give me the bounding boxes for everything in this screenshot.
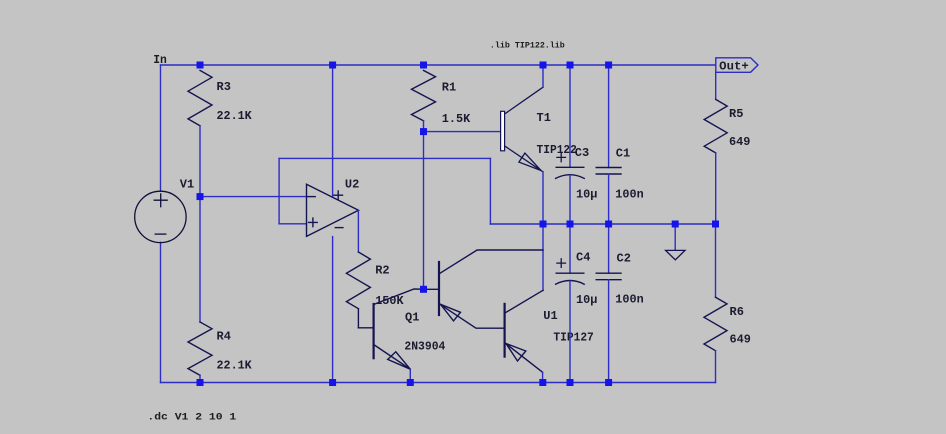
svg-text:T1: T1 xyxy=(537,111,551,125)
wire R4 bottom lead xyxy=(199,375,201,382)
wire R3 bottom lead to V1 node xyxy=(199,126,201,197)
wire Q1 emitter to bottom rail xyxy=(409,369,411,382)
resistor R2 xyxy=(346,252,370,309)
svg-text:22.1K: 22.1K xyxy=(217,358,253,372)
junction top rail / C1 xyxy=(605,62,612,69)
wire C3 top xyxy=(569,65,571,167)
wire C3 bottom xyxy=(569,175,571,224)
wire op-amp V+ supply from top rail xyxy=(332,65,334,197)
svg-text:C1: C1 xyxy=(616,147,630,161)
junction top rail / U2 supply xyxy=(329,62,336,69)
wire bottom rail xyxy=(161,382,716,384)
svg-text:Q1: Q1 xyxy=(405,310,419,324)
capacitor C3 (polarized) xyxy=(556,153,585,178)
wire feedback loop top xyxy=(279,157,490,159)
wire U1 emitter to bottom rail xyxy=(542,372,544,382)
transistor T1 (TIP122 darlington) xyxy=(501,87,543,172)
wire C4 bottom xyxy=(569,281,571,382)
svg-text:R2: R2 xyxy=(375,264,389,278)
op-amp U2 xyxy=(307,184,359,236)
svg-text:100n: 100n xyxy=(615,187,643,201)
resistor R1 xyxy=(412,70,436,120)
wire C1 top xyxy=(608,65,610,168)
wire mid output rail xyxy=(490,223,715,225)
voltage source V1 xyxy=(135,191,186,242)
junction output rail / T1 emitter xyxy=(540,221,547,228)
junction top rail / C3 xyxy=(567,62,574,69)
wire R5 bottom lead xyxy=(715,153,717,224)
capacitor C4 (polarized) xyxy=(556,259,585,284)
junction Q1 collector / U1 base xyxy=(420,286,427,293)
transistor Q1 (2N3904) xyxy=(358,289,423,369)
svg-text:C4: C4 xyxy=(576,250,590,264)
svg-text:V1: V1 xyxy=(180,178,194,192)
junction V1 node xyxy=(197,193,204,200)
svg-text:2N3904: 2N3904 xyxy=(404,339,445,353)
wire feedback left vertical xyxy=(278,158,280,223)
junction output rail / C1 C2 xyxy=(605,221,612,228)
svg-text:1.5K: 1.5K xyxy=(442,112,471,126)
wire output node down to U1 collector xyxy=(542,224,544,291)
junction bottom rail / C4 xyxy=(567,379,574,386)
flag Out+ xyxy=(716,58,758,74)
junction bottom rail / R4 xyxy=(197,379,204,386)
wire R5 top lead xyxy=(715,72,717,99)
svg-text:R6: R6 xyxy=(730,305,744,319)
resistor R5 xyxy=(704,99,727,152)
wire C4 top xyxy=(569,224,571,273)
svg-text:TIP122: TIP122 xyxy=(537,143,577,157)
svg-text:U2: U2 xyxy=(345,177,359,191)
svg-text:In: In xyxy=(153,53,167,67)
resistor R4 xyxy=(188,322,212,375)
svg-text:C3: C3 xyxy=(575,146,589,160)
junction bottom rail / C2 xyxy=(605,379,612,386)
svg-text:649: 649 xyxy=(729,135,750,149)
ground xyxy=(666,250,685,260)
junction top rail / T1 collector xyxy=(540,62,547,69)
svg-text:22.1K: 22.1K xyxy=(217,109,253,123)
junction output rail / R5 R6 xyxy=(712,221,719,228)
capacitor C2 xyxy=(596,273,621,280)
wire R6 top lead xyxy=(715,224,717,297)
wire left rail upper (In to V1 top) xyxy=(160,65,162,191)
resistor R6 xyxy=(704,297,727,351)
junction bottom rail / U2 supply xyxy=(329,379,336,386)
wire op-amp V- supply to bottom rail xyxy=(332,237,334,383)
svg-text:10µ: 10µ xyxy=(576,187,597,201)
wire T1 collector to top rail xyxy=(542,65,544,87)
capacitor C1 xyxy=(596,168,621,175)
svg-text:R3: R3 xyxy=(217,80,231,94)
junction R1 / T1 base xyxy=(420,128,427,135)
svg-text:.dc V1 2 10 1: .dc V1 2 10 1 xyxy=(147,411,236,423)
svg-text:TIP127: TIP127 xyxy=(553,331,593,345)
svg-text:R1: R1 xyxy=(442,81,456,95)
resistor R3 xyxy=(188,70,212,125)
junction bottom rail / Q1 emitter xyxy=(407,379,414,386)
wire op-amp output down to R2 xyxy=(357,210,359,252)
svg-text:649: 649 xyxy=(730,333,751,347)
svg-text:R5: R5 xyxy=(729,107,743,121)
wire C2 top xyxy=(608,224,610,273)
wire C2 bottom xyxy=(608,280,610,383)
svg-text:U1: U1 xyxy=(543,309,557,323)
wire V1 node down to R4 xyxy=(199,197,201,322)
wire R1 bottom lead xyxy=(423,121,425,132)
junction bottom rail / U1 emitter xyxy=(539,379,546,386)
wire feedback to noninverting input xyxy=(279,223,306,225)
junction output rail / C3 C4 xyxy=(567,221,574,228)
wire V1 node to op-amp inverting input xyxy=(200,196,307,198)
wire R6 bottom lead xyxy=(715,351,717,383)
wire T1 emitter down to output node xyxy=(542,172,544,224)
svg-text:C2: C2 xyxy=(617,251,631,265)
svg-text:R4: R4 xyxy=(217,329,231,343)
svg-text:100n: 100n xyxy=(615,293,643,307)
wire R1 node to T1 base xyxy=(424,131,501,133)
junction top rail / R1 xyxy=(420,62,427,69)
wire left rail lower (V1 bottom to bottom rail) xyxy=(160,242,162,382)
wire top rail In to Out+ xyxy=(161,64,716,66)
wire feedback right vertical xyxy=(489,158,491,224)
wire C1 bottom xyxy=(608,174,610,224)
svg-text:10µ: 10µ xyxy=(576,293,597,307)
svg-text:150K: 150K xyxy=(375,294,404,308)
transistor U1 (TIP127 darlington pair) xyxy=(424,250,543,372)
junction output rail / ground xyxy=(672,221,679,228)
wire ground stub xyxy=(674,224,676,250)
wire R2 bottom lead to Q1 base xyxy=(357,309,359,328)
svg-text:.lib TIP122.lib: .lib TIP122.lib xyxy=(490,41,565,51)
svg-text:Out+: Out+ xyxy=(719,60,749,74)
wire R1 node down to Q1 collector node xyxy=(423,132,425,290)
junction top rail / R3 xyxy=(197,62,204,69)
